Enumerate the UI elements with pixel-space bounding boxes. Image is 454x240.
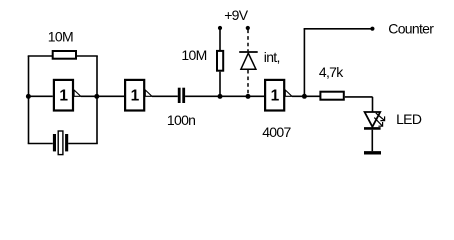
wire resistor 10M to node	[219, 72, 221, 97]
terminal counter	[370, 27, 374, 31]
wire U1 output to U2 input	[81, 95, 125, 97]
ground bar	[364, 151, 381, 154]
resistor R feedback 10M	[53, 51, 76, 59]
svg-text:LED: LED	[396, 111, 422, 127]
crystal X1 body	[58, 131, 63, 155]
svg-text:Counter: Counter	[388, 21, 434, 37]
wire crystal left segment	[28, 143, 53, 145]
wire +9V to resistor 10M	[219, 28, 221, 50]
wire LED vertical drop	[372, 97, 374, 113]
inverter U2	[125, 80, 144, 111]
wire dashed +9V to diode cathode	[247, 30, 249, 52]
svg-text:4,7k: 4,7k	[319, 64, 344, 80]
diode D1 triangle	[241, 53, 256, 69]
svg-text:int,: int,	[264, 49, 280, 65]
node junction counter	[302, 94, 307, 99]
LED D2 triangle	[365, 112, 381, 127]
inversion triangle U1 output	[74, 90, 81, 96]
diode D1 cathode bar	[239, 51, 258, 53]
LED arrow 2	[374, 118, 382, 127]
inverter U1	[54, 80, 73, 111]
capacitor C1 right plate	[182, 88, 185, 103]
wire counter vertical	[303, 29, 305, 97]
svg-text:4007: 4007	[262, 124, 291, 140]
inverter U3	[265, 80, 284, 111]
wire capacitor to U3 input	[185, 95, 264, 97]
wire U3 output to resistor 4,7k	[292, 95, 320, 97]
capacitor C1 left plate	[178, 88, 181, 103]
wire inverter U1 input	[29, 95, 53, 97]
wire dashed diode anode to node	[247, 70, 249, 94]
terminal +9V left	[218, 26, 222, 30]
wire resistor 4,7k to LED corner	[345, 96, 373, 98]
wire U2 output to capacitor	[152, 95, 178, 97]
wire LED to ground	[371, 130, 373, 152]
LED arrow 1	[376, 113, 385, 121]
svg-text:1: 1	[131, 88, 140, 105]
svg-text:+9V: +9V	[224, 7, 249, 23]
LED D2 cathode bar	[364, 127, 381, 130]
wire counter horizontal	[304, 28, 373, 30]
inversion triangle U3 output	[285, 90, 292, 96]
wire oscillator left vertical	[28, 56, 30, 144]
svg-text:1: 1	[271, 88, 280, 105]
svg-text:100n: 100n	[167, 112, 195, 128]
node junction left	[26, 94, 31, 99]
svg-text:10M: 10M	[48, 29, 73, 45]
resistor R2 10M vertical	[217, 51, 223, 71]
node junction right	[94, 94, 99, 99]
wire top feedback right segment	[77, 55, 98, 57]
node junction diode	[246, 94, 251, 99]
inversion triangle U2 output	[145, 90, 152, 96]
node junction 10M pulldown	[218, 94, 223, 99]
resistor R3 4,7k	[320, 92, 343, 100]
wire oscillator right vertical	[96, 56, 98, 144]
crystal X1 left plate	[53, 134, 56, 151]
wire top feedback left segment	[28, 55, 53, 57]
wire crystal right segment	[68, 143, 98, 145]
svg-text:1: 1	[59, 88, 68, 105]
crystal X1 right plate	[65, 134, 68, 151]
svg-text:10M: 10M	[181, 47, 206, 63]
terminal +9V right	[246, 26, 250, 30]
